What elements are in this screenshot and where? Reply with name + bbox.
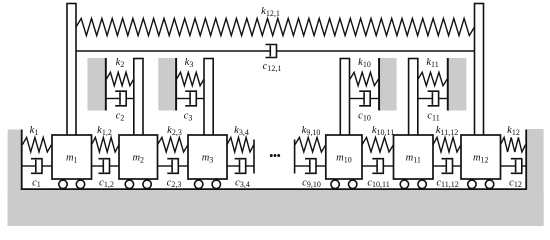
mass m10 [326,135,362,189]
ground trough: left wall block [8,130,21,227]
mass m2 [119,135,158,189]
damper c3,4 [227,165,240,167]
wall block for k11 [448,58,467,111]
ground trough: floor slab [8,190,544,226]
mass m11 [394,135,434,189]
damper c1,2 [92,165,104,167]
damper c12 [501,165,516,167]
damper c10 [350,98,364,100]
spring k11,12 [433,137,461,152]
mass m12 [461,135,501,189]
spring k2,3 [158,137,189,152]
damper c11 [418,98,432,100]
damper c9,10 [295,165,310,167]
wall block for k10 [379,58,396,111]
left wall line [21,130,23,190]
right wall line [525,130,527,190]
spring k12 [501,137,526,152]
stub wire (m4 side) [253,140,255,174]
stub wire (m9 side) [294,140,296,174]
spring k3,4 [227,137,254,152]
damper c1 [22,165,35,167]
spring k9,10 [295,137,326,152]
spring k10,11 [362,137,394,152]
ground trough: right wall block [527,129,544,226]
damper c2 [107,98,121,100]
damper c3 [177,98,191,100]
spring k1,2 [92,137,120,152]
wall block for k2 [88,58,106,111]
post on mass m11 [409,59,418,136]
damper c2,3 [158,165,173,167]
floor line [21,188,527,190]
post on mass m3 [204,59,213,136]
spring k11 [418,72,447,85]
spring k3 [177,72,204,85]
spring k10 [350,72,379,85]
wall block for k3 [158,58,176,111]
damper c12,1 (top coupling damper) [76,50,270,52]
post on mass m10 [340,59,349,136]
ellipsis dots [270,154,280,157]
post on mass m2 [134,59,143,136]
post on mass m1 [67,4,76,136]
mass m3 [188,135,227,189]
damper c10,11 [362,165,377,167]
mass m1 [52,135,92,189]
spring k12,1 (top coupling spring) [76,18,475,35]
spring k2 [107,72,134,85]
damper c11,12 [433,165,446,167]
post on mass m12 [475,4,484,136]
spring k1 [22,137,51,152]
